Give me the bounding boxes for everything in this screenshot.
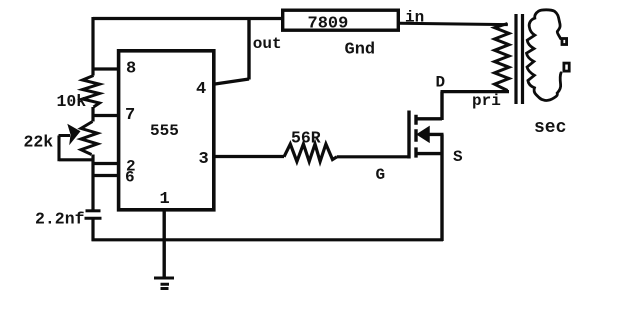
svg-text:10k: 10k (57, 92, 87, 111)
wire drain to primary (441, 90, 510, 93)
capacitor C1 top plate (86, 209, 101, 212)
wire pin4 to out (215, 79, 249, 84)
svg-text:1: 1 (160, 190, 170, 209)
svg-text:3: 3 (199, 150, 209, 169)
svg-text:out: out (253, 35, 282, 53)
transistor Q1 channel dashes (414, 115, 417, 158)
wire source down (440, 134, 443, 241)
potentiometer R2 22k zigzag (81, 122, 98, 155)
transformer T1 secondary terminal upper (562, 39, 567, 45)
svg-text:G: G (376, 166, 386, 184)
wire out drop (247, 19, 250, 80)
svg-text:7: 7 (125, 106, 135, 125)
wire pin 6 (92, 174, 118, 177)
potentiometer R2 wiper arrow (59, 136, 93, 162)
transformer T1 secondary winding (527, 10, 562, 101)
transistor Q1 body arrowhead (418, 127, 430, 142)
transformer T1 core lines (516, 14, 523, 104)
svg-text:in: in (405, 9, 424, 27)
wire ground rail bottom (92, 238, 444, 241)
ground symbol (154, 278, 174, 289)
IC U1 555 box (119, 51, 214, 210)
transistor Q1 source lead (416, 152, 444, 155)
wire 7809 in to primary top (400, 23, 508, 24)
wire pin 2 (92, 162, 119, 165)
svg-text:22k: 22k (24, 132, 54, 151)
transistor Q1 drain lead (416, 92, 442, 120)
svg-text:D: D (436, 74, 446, 92)
resistor R1 10k zigzag (83, 76, 100, 108)
wire pin 8 (92, 67, 119, 70)
svg-text:4: 4 (196, 80, 206, 99)
transistor Q1 gate bar (407, 111, 410, 159)
wire pin 3 to gate (214, 155, 408, 159)
resistor R3 56R zigzag (284, 144, 337, 162)
svg-text:6: 6 (125, 169, 135, 187)
svg-text:8: 8 (126, 60, 136, 79)
svg-text:pri: pri (472, 92, 501, 110)
svg-text:555: 555 (150, 122, 179, 140)
regulator U2 7809 box (283, 10, 399, 30)
wire left rail vertical (91, 17, 94, 241)
svg-text:S: S (453, 148, 463, 166)
svg-text:Gnd: Gnd (345, 41, 376, 60)
transistor Q1 body arrow line (426, 133, 444, 136)
wire pin 1 to ground (162, 211, 165, 278)
svg-text:sec: sec (534, 118, 566, 138)
svg-text:7809: 7809 (308, 14, 349, 33)
svg-text:2.2nf: 2.2nf (35, 209, 85, 228)
capacitor C1 bottom plate (85, 217, 102, 220)
svg-text:56R: 56R (291, 129, 321, 148)
transformer T1 secondary terminal lower (564, 63, 569, 71)
wire top V+ rail (93, 17, 281, 20)
wire pin 7 (92, 114, 119, 117)
transformer T1 primary winding (495, 24, 510, 91)
potentiometer R2 wiper arrowhead (67, 124, 80, 145)
